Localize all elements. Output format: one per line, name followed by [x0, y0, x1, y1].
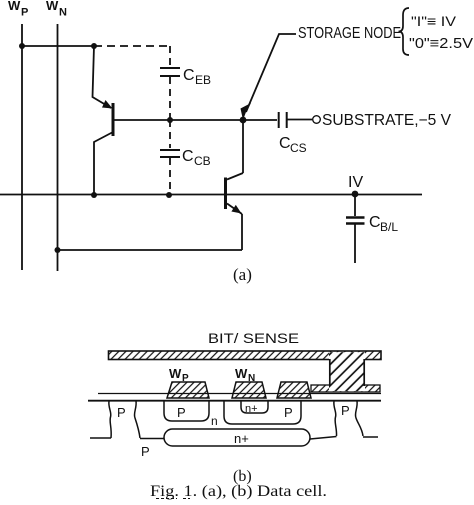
svg-text:C: C [369, 214, 381, 231]
svg-text:"I"≡ IV: "I"≡ IV [411, 13, 457, 29]
svg-text:B/L: B/L [380, 220, 398, 234]
svg-text:W: W [169, 366, 182, 381]
svg-text:P: P [177, 405, 186, 420]
svg-text:N: N [59, 7, 67, 19]
svg-text:P: P [341, 403, 350, 418]
svg-text:P: P [182, 373, 189, 384]
svg-text:SUBSTRATE,−5 V: SUBSTRATE,−5 V [322, 112, 452, 129]
svg-text:W: W [8, 0, 21, 13]
svg-text:BIT/ SENSE: BIT/ SENSE [208, 330, 299, 346]
svg-text:W: W [235, 366, 248, 381]
svg-text:N: N [248, 373, 255, 384]
svg-text:C: C [279, 135, 291, 152]
svg-text:(a): (a) [233, 265, 252, 284]
svg-text:n+: n+ [234, 431, 249, 446]
svg-text:Fig. 1. (a), (b) Data cell.: Fig. 1. (a), (b) Data cell. [150, 483, 327, 500]
svg-text:STORAGE NODE: STORAGE NODE [298, 25, 401, 42]
svg-text:IV: IV [348, 174, 363, 191]
svg-text:n: n [211, 414, 218, 428]
svg-text:P: P [117, 405, 126, 420]
svg-text:C: C [183, 67, 195, 84]
svg-text:P: P [284, 405, 293, 420]
svg-text:P: P [21, 7, 28, 19]
svg-text:"0"≡2.5V: "0"≡2.5V [409, 36, 473, 52]
svg-text:EB: EB [195, 73, 211, 87]
svg-text:CS: CS [290, 141, 307, 155]
svg-text:CB: CB [194, 154, 211, 168]
svg-text:W: W [46, 0, 59, 13]
svg-text:C: C [182, 148, 194, 165]
svg-text:P: P [141, 444, 150, 459]
svg-text:n+: n+ [245, 403, 258, 415]
